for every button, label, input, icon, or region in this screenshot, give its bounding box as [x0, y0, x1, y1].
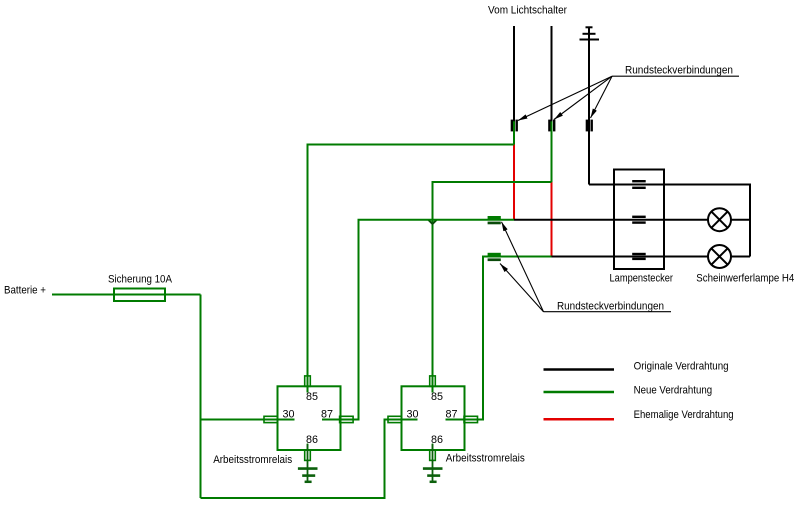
- wire hop marker at crossing: [429, 220, 437, 224]
- leader arrow to connector H1: [502, 222, 544, 312]
- svg-text:Vom Lichtschalter: Vom Lichtschalter: [488, 5, 567, 17]
- leader arrow to connector C1: [518, 76, 612, 120]
- svg-text:Neue Verdrahtung: Neue Verdrahtung: [634, 385, 713, 397]
- ground below relay K2: [423, 444, 443, 482]
- svg-text:Ehemalige Verdrahtung: Ehemalige Verdrahtung: [634, 409, 734, 421]
- svg-text:Scheinwerferlampe H4: Scheinwerferlampe H4: [696, 272, 794, 284]
- relay K2 box: [402, 386, 465, 450]
- svg-text:87: 87: [446, 409, 458, 421]
- legend new wiring line: [544, 391, 615, 394]
- leader arrow to connector H2: [500, 264, 544, 312]
- svg-text:Lampenstecker: Lampenstecker: [610, 272, 674, 284]
- fuse F1 Sicherung 10A: [114, 289, 165, 302]
- svg-text:Arbeitsstromrelais: Arbeitsstromrelais: [213, 454, 292, 466]
- relay K2 pin 86: [430, 434, 443, 461]
- wire green below connector C2: [551, 121, 553, 182]
- wire lamp2 to right bus: [731, 256, 750, 258]
- connector C2 on wire 2: [548, 120, 555, 132]
- legend original wiring line: [544, 368, 615, 371]
- svg-text:30: 30: [283, 409, 295, 421]
- wire third black vertical down to lamp connector level: [588, 27, 590, 185]
- relay K1 pin 30: [264, 409, 295, 423]
- wire battery feed: [52, 294, 201, 296]
- svg-text:85: 85: [306, 391, 318, 403]
- wire green below connector C1: [513, 121, 515, 144]
- wire black to lamp 2: [552, 256, 709, 258]
- svg-text:Rundsteckverbindungen: Rundsteckverbindungen: [625, 64, 733, 76]
- wire black to lamp 1: [514, 219, 708, 221]
- svg-text:Originale Verdrahtung: Originale Verdrahtung: [634, 360, 729, 372]
- svg-text:Rundsteckverbindungen: Rundsteckverbindungen: [557, 300, 664, 312]
- legend former wiring line: [544, 418, 615, 421]
- svg-text:87: 87: [321, 409, 333, 421]
- lamp L1 (headlamp): [708, 208, 731, 231]
- wire green G3 from relay 1 pin 87 to connector H1: [322, 220, 514, 420]
- leader arrow to connector C3: [591, 76, 613, 118]
- relay K1 box: [278, 386, 341, 450]
- wire green G2 to relay 2 pin 85: [433, 182, 552, 393]
- wire lamp1 to right bus: [731, 219, 750, 221]
- lamp connector pair 1: [632, 180, 646, 189]
- relay K1 pin 85: [305, 376, 318, 403]
- wire from light switch 1 (black vertical): [513, 26, 515, 122]
- wire main green vertical: [200, 295, 202, 499]
- label Rundsteckverbindungen (lower) with underline: [544, 300, 672, 312]
- connector H1 (Rundsteckverbindung): [488, 216, 501, 224]
- svg-text:Sicherung 10A: Sicherung 10A: [108, 273, 173, 285]
- connector H2 (Rundsteckverbindung): [488, 253, 501, 261]
- svg-text:Arbeitsstromrelais: Arbeitsstromrelais: [446, 453, 525, 465]
- connector C3 on wire 3: [586, 120, 593, 132]
- ground below relay K1: [298, 444, 318, 482]
- label Rundsteckverbindungen (top) with underline: [612, 64, 739, 76]
- wire green G1 to relay 1 pin 85: [308, 145, 515, 393]
- wire from light switch 2 (black vertical): [551, 26, 553, 122]
- relay K2 pin 30: [388, 409, 419, 423]
- relay K1 pin 87: [321, 409, 359, 423]
- wire black top feed to lamps: [589, 185, 750, 257]
- chassis/antenna symbol on third wire: [580, 27, 600, 39]
- relay K2 pin 87: [446, 409, 478, 423]
- wire green G4 from relay 2 pin 87 to connector H2: [446, 257, 552, 420]
- lamp L2 (headlamp): [708, 245, 731, 268]
- leader arrow to connector C2: [554, 76, 612, 119]
- relay K2 pin 85: [430, 376, 443, 403]
- wire branch to relay 1 pin 30: [201, 419, 295, 421]
- svg-text:85: 85: [431, 391, 443, 403]
- wire red former wiring R1: [513, 145, 515, 220]
- relay K1 pin 86: [305, 434, 318, 461]
- lamp connector pair 2: [632, 216, 646, 224]
- Lampenstecker box: [614, 170, 664, 270]
- lamp connector pair 3: [632, 253, 646, 260]
- connector C1 (Rundsteckverbindung) on wire 1: [511, 120, 518, 132]
- svg-text:Batterie +: Batterie +: [4, 285, 46, 297]
- wire red former wiring R2: [551, 182, 553, 257]
- wire bottom feed: [201, 420, 418, 499]
- svg-text:30: 30: [407, 409, 419, 421]
